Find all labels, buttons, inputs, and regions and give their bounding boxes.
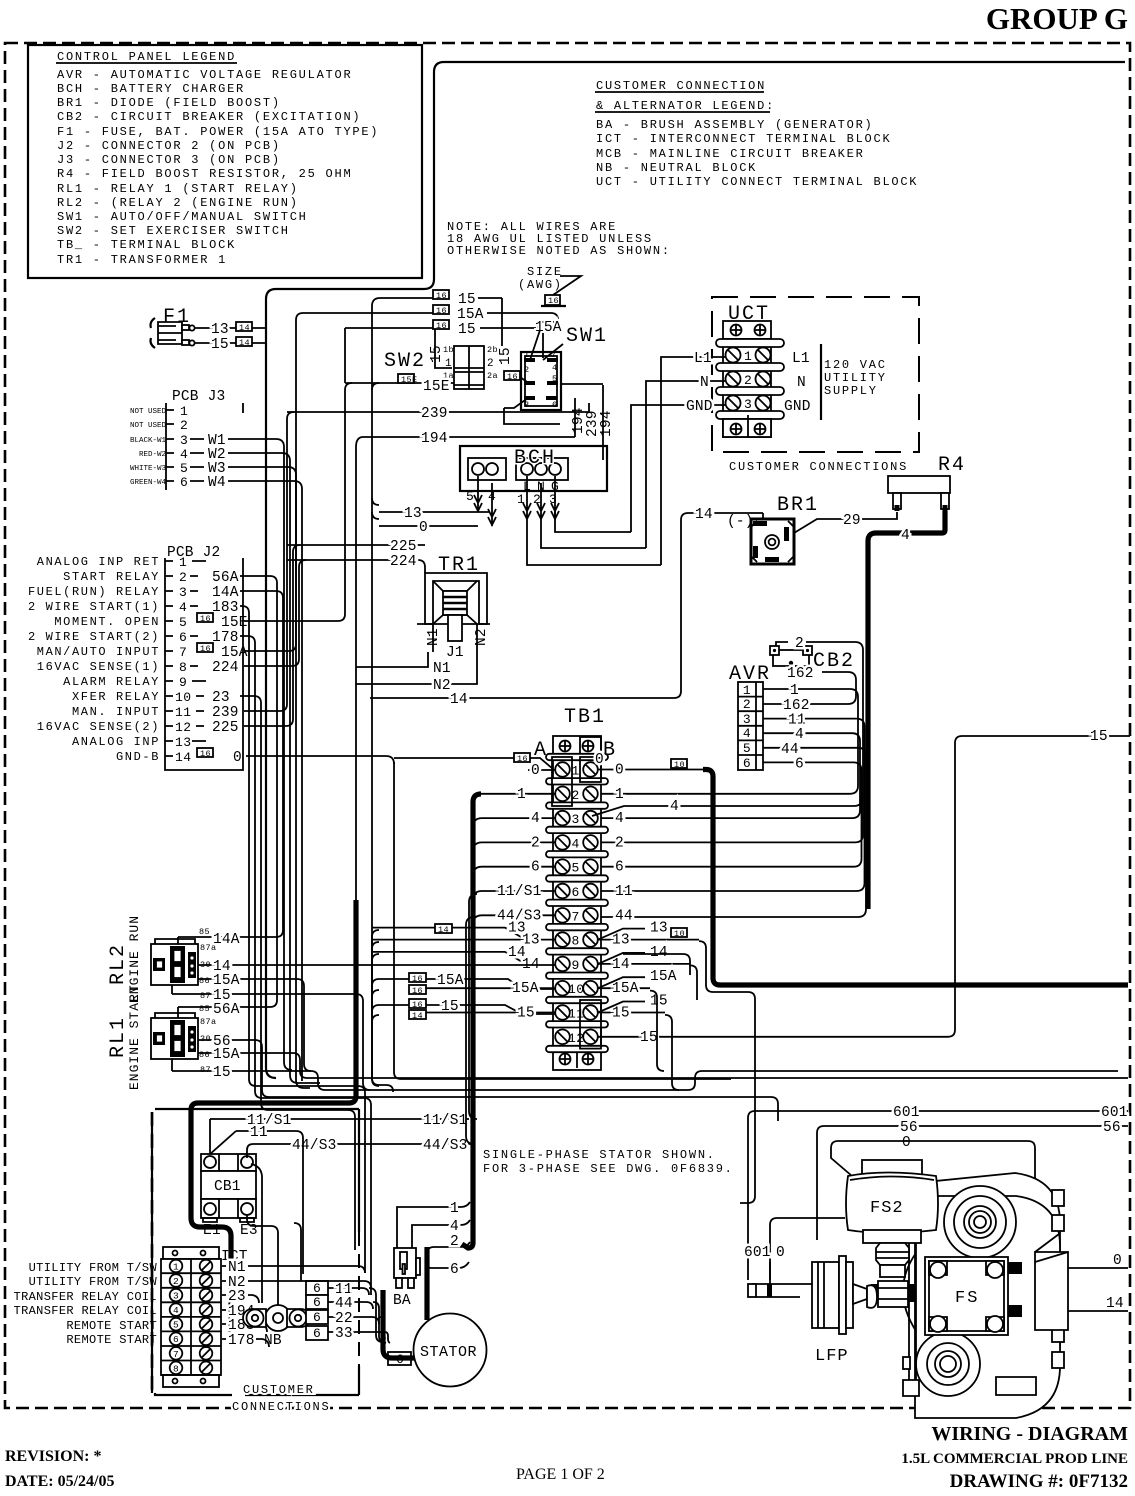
svg-text:2: 2 [180,418,188,433]
svg-text:SUPPLY: SUPPLY [824,384,878,398]
TB1 row 9 [555,957,598,973]
bold wire TB1 B1 down right [703,770,1128,986]
wire 14 RL2 [198,959,555,975]
svg-text:ENGINE START: ENGINE START [127,984,142,1090]
wire 56A RL1 [178,1000,277,1018]
svg-text:MCB - MAINLINE CIRCUIT BREAKER: MCB - MAINLINE CIRCUIT BREAKER [596,147,865,161]
wire N to UCT [646,375,725,548]
wire TB1 B4 2 label [615,835,624,851]
svg-text:3: 3 [179,585,187,600]
svg-text:13: 13 [612,933,630,949]
svg-text:1: 1 [450,1201,459,1217]
svg-text:1: 1 [744,349,752,364]
svg-text:15A: 15A [612,981,639,997]
svg-text:REMOTE START: REMOTE START [66,1319,157,1333]
svg-text:F1 - FUSE, BAT. POWER (15A AT: F1 - FUSE, BAT. POWER (15A ATO TYPE) [57,125,379,139]
breaker CB2 [770,642,855,673]
svg-text:0: 0 [776,1245,785,1261]
svg-text:16: 16 [412,986,423,996]
svg-text:CUSTOMER CONNECTIONS: CUSTOMER CONNECTIONS [729,460,908,474]
svg-text:15: 15 [640,1030,658,1046]
svg-text:BCH - BATTERY CHARGER: BCH - BATTERY CHARGER [57,82,245,96]
svg-text:6: 6 [572,885,580,900]
TB1 row 2 [555,787,598,803]
svg-text:4: 4 [450,1219,459,1235]
svg-text:FOR 3-PHASE SEE DWG. 0F6839.: FOR 3-PHASE SEE DWG. 0F6839. [483,1162,734,1176]
svg-text:10: 10 [175,690,192,705]
wire 0 right [1022,1253,1128,1269]
wire TB1 A9 14 lower label [522,957,540,973]
svg-text:CB2 - CIRCUIT BREAKER (EXCITAT: CB2 - CIRCUIT BREAKER (EXCITATION) [57,110,361,124]
svg-text:14: 14 [650,945,668,961]
svg-text:SW1 - AUTO/OFF/MANUAL SWITCH: SW1 - AUTO/OFF/MANUAL SWITCH [57,210,308,224]
svg-text:11: 11 [568,1007,585,1022]
svg-text:239: 239 [212,705,239,721]
NB connection wires [294,1223,301,1281]
svg-text:3: 3 [173,1291,179,1302]
svg-text:86: 86 [199,976,210,986]
TB1 row 5 [555,859,598,875]
TB1 row 11 [555,1005,598,1021]
svg-text:UTILITY FROM T/SW: UTILITY FROM T/SW [29,1275,158,1289]
svg-text:10: 10 [568,982,585,997]
svg-text:14A: 14A [212,585,239,601]
svg-text:1: 1 [517,787,526,803]
wire TB1 A9 14 upper [372,945,526,962]
svg-text:56: 56 [900,1120,918,1136]
svg-text:8: 8 [173,1363,179,1374]
svg-text:AVR - AUTOMATIC VOLTAGE REGULA: AVR - AUTOMATIC VOLTAGE REGULATOR [57,68,352,82]
wire 15E [345,374,454,395]
svg-text:1.5L COMMERCIAL PROD LINE: 1.5L COMMERCIAL PROD LINE [901,1451,1128,1467]
svg-text:11/S1: 11/S1 [423,1113,468,1129]
wire TB1 B9 14 [598,945,690,973]
svg-text:2: 2 [795,636,804,652]
svg-text:(AWG): (AWG) [518,278,563,292]
svg-text:8: 8 [572,934,580,949]
switch SW2 [384,298,514,389]
svg-text:5: 5 [552,374,558,384]
wires 183 178 23 J2 to ICT [240,606,365,1273]
svg-text:MAN. INPUT: MAN. INPUT [72,705,160,719]
svg-text:15A: 15A [457,307,484,323]
trunk 372 from 15E down [372,298,393,1092]
svg-text:44/S3: 44/S3 [292,1138,337,1154]
wire 14 right [1022,1296,1128,1312]
svg-text:15A: 15A [650,969,677,985]
svg-text:4: 4 [572,836,580,851]
wire 15 RL2 [172,985,370,1090]
svg-text:225: 225 [212,720,239,736]
svg-text:FUEL(RUN) RELAY: FUEL(RUN) RELAY [28,585,160,599]
svg-text:2: 2 [744,373,752,388]
svg-text:0: 0 [1113,1253,1122,1269]
wire 14A RL2 [178,930,283,948]
wire 15A RL2 [198,973,311,1071]
wire 2 CB2 [598,636,863,842]
svg-text:15: 15 [1090,729,1108,745]
svg-text:REVISION: *: REVISION: * [5,1448,101,1465]
svg-text:WIRING - DIAGRAM: WIRING - DIAGRAM [931,1423,1128,1445]
wire 29 [794,512,897,533]
wire TB1 A6 11/S1 branch [473,884,555,900]
fan vertical feeding TB1 left rows 8-11 [372,930,379,1086]
svg-text:DATE: 05/24/05: DATE: 05/24/05 [5,1473,114,1490]
wire L1 to UCT [661,351,725,565]
svg-text:22: 22 [335,1311,353,1327]
FS plate [925,1257,1008,1335]
wire 44 to six box [328,1296,373,1312]
boxed 16/14 labels left of TB1 [409,924,452,1021]
svg-text:4: 4 [173,1305,179,1316]
stator [388,1314,487,1387]
svg-text:2a: 2a [487,371,498,381]
wire TB1 A11 15 lower [426,1006,555,1022]
svg-text:CONNECTIONS: CONNECTIONS [232,1400,330,1414]
svg-text:162: 162 [787,666,814,682]
svg-text:J2 - CONNECTOR 2 (ON PCB): J2 - CONNECTOR 2 (ON PCB) [57,139,281,153]
svg-text:J1: J1 [446,645,464,661]
wire 22 to six box [328,1311,379,1327]
svg-text:224: 224 [390,554,417,570]
svg-text:SIZE: SIZE [527,265,563,279]
svg-text:NOT USED: NOT USED [130,408,167,416]
svg-text:8: 8 [179,660,187,675]
wire size callout SIZE (AWG) [518,265,581,306]
svg-text:TRANSFER RELAY COIL: TRANSFER RELAY COIL [14,1304,157,1318]
svg-text:0: 0 [419,520,428,536]
neutral block NB [243,1305,310,1349]
svg-text:NB: NB [264,1333,282,1349]
TB1 row 3 [555,811,598,827]
svg-text:RED-W2: RED-W2 [139,451,166,459]
ICT right wires [228,1260,255,1349]
wire 239 [287,406,589,422]
bottom titles [5,1423,1128,1492]
svg-text:15E: 15E [221,615,248,631]
svg-text:FS: FS [955,1289,979,1308]
wire TB1 A10 15A lower [426,981,555,997]
svg-text:STATOR: STATOR [420,1344,477,1361]
svg-text:TRANSFER RELAY COIL: TRANSFER RELAY COIL [14,1290,157,1304]
wire TB1 B2 1 label [615,787,624,803]
svg-text:5: 5 [180,461,188,476]
svg-text:16VAC SENSE(1): 16VAC SENSE(1) [37,660,160,674]
relay RL1 [107,984,217,1090]
wire TB1 B11 15 [598,994,668,1022]
svg-text:15A: 15A [213,1047,240,1063]
svg-text:14: 14 [450,692,468,708]
customer connections dashed box bottom-left [152,1109,359,1414]
wire 0 to BCH [379,519,478,536]
svg-text:4: 4 [180,447,188,462]
low fuel pressure switch LFP [812,1256,877,1366]
trunk from J2-0 wire down [394,762,731,1079]
wire TB1 B1 0 [598,763,703,779]
svg-text:BLACK-W1: BLACK-W1 [130,437,167,445]
svg-text:N1: N1 [433,661,451,677]
solenoid FS2 [846,1160,938,1243]
svg-text:9: 9 [179,675,187,690]
svg-text:2: 2 [743,697,751,712]
fitting under FS2 [871,1243,915,1307]
svg-text:6: 6 [313,1310,321,1325]
svg-text:11: 11 [615,884,633,900]
svg-text:44/S3: 44/S3 [423,1138,468,1154]
wire 15 RL1 [172,1059,1118,1090]
wire 44/S3 lower [253,1138,474,1154]
TB1 row 12 [555,1030,598,1046]
svg-text:3: 3 [572,812,580,827]
svg-text:601: 601 [1101,1105,1128,1121]
svg-text:4: 4 [531,811,540,827]
wire 56 RL1 [198,1034,778,1121]
svg-text:15A: 15A [512,981,539,997]
svg-text:16: 16 [412,1000,423,1010]
svg-text:MAN/AUTO INPUT: MAN/AUTO INPUT [37,645,160,659]
svg-text:12: 12 [568,1031,585,1046]
wire TB1 A8 13 lower [372,933,555,949]
svg-text:85: 85 [199,1004,210,1014]
terminal block UCT [712,297,919,474]
wire TB1 A3 4 branch [473,811,555,827]
wire GND to UCT [631,399,725,532]
wire N1 [356,652,451,677]
svg-text:13: 13 [211,322,229,338]
svg-text:3: 3 [524,400,530,410]
svg-text:TB_ - TERMINAL BLOCK: TB_ - TERMINAL BLOCK [57,238,236,252]
svg-text:PCB J3: PCB J3 [172,389,225,405]
customer connection legend [595,79,918,189]
svg-text:5: 5 [173,1320,179,1331]
svg-text:BA: BA [393,1293,411,1309]
fuse F1 [151,306,195,348]
svg-text:13: 13 [650,921,668,937]
svg-text:15: 15 [612,1006,630,1022]
svg-text:16: 16 [436,291,447,301]
wire TB1 A11 15 upper [379,999,555,1015]
terminal block TB1 [534,706,617,1070]
svg-text:0: 0 [902,1135,911,1151]
control panel legend box [28,45,422,278]
TB1 row 4 [555,835,598,851]
svg-text:9: 9 [572,958,580,973]
svg-text:44: 44 [335,1296,353,1312]
svg-text:6: 6 [743,756,751,771]
pipe bracket left of LFP [748,1262,812,1297]
wire 11 to six box [328,1282,369,1298]
svg-text:6: 6 [313,1281,321,1296]
bold trunk from 194 wire down to CB1 [191,447,356,1332]
svg-text:BA - BRUSH ASSEMBLY (GENERATO: BA - BRUSH ASSEMBLY (GENERATOR) [596,118,874,132]
wire 13 to BCH [379,506,489,522]
svg-text:183: 183 [212,600,239,616]
svg-text:16: 16 [200,614,211,624]
svg-text:6: 6 [313,1326,321,1341]
regulator AVR [729,663,771,771]
BCH L N G down wires [527,520,661,565]
connector PCB J2 [28,545,248,770]
breaker CB1 [201,1154,258,1239]
CB1 top wires [247,1144,253,1158]
wire 15A top [303,305,558,323]
resistor R4 [888,454,966,511]
svg-text:162: 162 [783,698,810,714]
svg-text:BR1 - DIODE (FIELD BOOST): BR1 - DIODE (FIELD BOOST) [57,96,281,110]
svg-text:N1: N1 [228,1260,246,1276]
svg-text:N1: N1 [426,628,442,646]
svg-text:PCB J2: PCB J2 [167,545,220,561]
svg-text:ICT - INTERCONNECT TERMINAL BL: ICT - INTERCONNECT TERMINAL BLOCK [596,132,891,146]
svg-text:2b: 2b [487,345,498,355]
svg-text:5: 5 [466,489,474,504]
switch SW1 [504,320,608,410]
svg-text:15: 15 [458,292,476,308]
svg-text:11: 11 [250,1125,268,1141]
wire 15 third [345,320,536,338]
svg-text:44: 44 [781,742,799,758]
svg-text:CB2: CB2 [813,650,855,673]
svg-text:14: 14 [438,925,449,935]
svg-text:R4 - FIELD BOOST RESISTOR, 25: R4 - FIELD BOOST RESISTOR, 25 OHM [57,167,352,181]
boxed 6 wire labels column [306,1281,328,1341]
wire TB1 B10 15A [598,969,677,997]
svg-text:7: 7 [572,909,580,924]
single phase stator note [483,1148,734,1176]
svg-text:1: 1 [180,404,188,419]
svg-text:15A: 15A [213,973,240,989]
wire TB1 A5 6 branch [473,860,555,876]
svg-text:16: 16 [436,321,447,331]
svg-text:BCH: BCH [514,447,556,470]
wire TB1 A1 0 [394,752,604,779]
svg-text:16: 16 [548,296,559,306]
boxed 10 labels [671,759,687,939]
svg-text:16: 16 [200,749,211,759]
svg-text:UTILITY: UTILITY [824,371,887,385]
svg-text:12: 12 [175,720,192,735]
wire 15A RL1 [198,1047,1128,1078]
wire TB1 B6 11 label [615,884,633,900]
svg-text:2 WIRE START(1): 2 WIRE START(1) [28,600,160,614]
svg-text:0: 0 [531,763,540,779]
svg-text:2: 2 [615,835,624,851]
wires from six boxes curving down [369,1288,383,1342]
svg-text:15: 15 [650,994,668,1010]
svg-text:6: 6 [552,400,558,410]
AVR pin wires [598,683,866,917]
svg-text:14: 14 [239,323,250,333]
svg-text:14: 14 [695,507,713,523]
wire 33 to six box [328,1326,385,1342]
wire 13 from F1 [195,322,266,338]
svg-text:UTILITY FROM T/SW: UTILITY FROM T/SW [29,1261,158,1275]
svg-text:14: 14 [239,338,250,348]
svg-text:601: 601 [744,1245,771,1261]
svg-text:WHITE-W3: WHITE-W3 [130,465,167,473]
svg-text:LFP: LFP [815,1347,849,1366]
wire TB1 A8 13 upper [372,921,526,938]
svg-text:194: 194 [599,410,615,437]
TB1 row 6 [555,884,598,900]
wire 225 [287,539,425,555]
svg-text:SW2 - SET EXERCISER SWITCH: SW2 - SET EXERCISER SWITCH [57,224,290,238]
svg-text:15A: 15A [221,645,248,661]
svg-text:2: 2 [524,365,530,375]
svg-text:178: 178 [212,630,239,646]
svg-text:7: 7 [179,645,187,660]
svg-text:CUSTOMER CONNECTION: CUSTOMER CONNECTION [596,79,766,93]
svg-text:2: 2 [179,570,187,585]
wire 14 TR1 area [370,507,763,708]
svg-text:6: 6 [450,1262,459,1278]
J2 wires to trunk bundle [240,576,394,1000]
note text [447,220,671,258]
svg-text:33: 33 [335,1326,353,1342]
svg-text:GND-B: GND-B [116,750,160,764]
svg-text:2: 2 [531,835,540,851]
svg-text:4: 4 [670,799,679,815]
wire 15 top [310,290,502,308]
wire TB1 A10 15A upper [379,973,555,989]
svg-text:1: 1 [790,683,799,699]
svg-text:11/S1: 11/S1 [497,884,542,900]
svg-text:RL1 - RELAY 1 (START RELAY): RL1 - RELAY 1 (START RELAY) [57,182,299,196]
connector PCB J3 [130,389,243,491]
svg-text:11: 11 [175,705,192,720]
svg-text:15E: 15E [423,379,450,395]
wire TB1 A7 44/S3 branch [473,908,555,924]
svg-text:REMOTE START: REMOTE START [66,1333,157,1347]
svg-text:224: 224 [212,660,239,676]
interconnect terminal ICT [161,1247,248,1387]
svg-text:0: 0 [595,752,604,768]
wire TB1 B5 6 label [615,860,624,876]
svg-text:11: 11 [788,713,806,729]
svg-text:E1: E1 [203,1223,221,1239]
stator lead wires 1 4 2 6 [397,1201,470,1248]
J2 riser wires 239 225 224 15A 15E [244,412,294,711]
TB1 row 10 [555,981,598,997]
wire 11/S1 lower [210,1113,469,1157]
svg-text:SW2: SW2 [384,350,426,373]
rectifier BR1 [727,494,819,564]
svg-text:5: 5 [572,861,580,876]
svg-text:7: 7 [173,1349,179,1360]
wire 15 from F1 [195,337,266,353]
svg-text:GND: GND [784,399,811,415]
svg-text:6: 6 [179,630,187,645]
svg-text:6: 6 [795,756,804,772]
svg-text:86: 86 [199,1050,210,1060]
svg-text:5: 5 [179,615,187,630]
svg-text:16: 16 [412,974,423,984]
svg-text:178: 178 [228,1333,255,1349]
svg-text:2 WIRE START(2): 2 WIRE START(2) [28,630,160,644]
svg-text:J3 - CONNECTOR 3 (ON PCB): J3 - CONNECTOR 3 (ON PCB) [57,153,281,167]
wire TB1 B7 44 label [615,908,633,924]
svg-text:23: 23 [228,1289,246,1305]
svg-text:4: 4 [901,528,910,544]
svg-text:1: 1 [524,350,530,360]
svg-text:15A: 15A [437,973,464,989]
svg-text:87: 87 [200,991,211,1001]
wire 194 [362,431,575,447]
svg-text:CUSTOMER: CUSTOMER [243,1383,315,1397]
svg-text:1: 1 [615,787,624,803]
svg-text:30: 30 [200,1034,211,1044]
svg-text:2: 2 [450,1234,459,1250]
